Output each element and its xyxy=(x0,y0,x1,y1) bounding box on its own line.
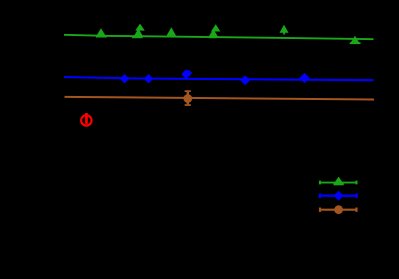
legend green error cap under triangle xyxy=(334,183,344,185)
legend green left cap xyxy=(319,181,321,185)
brown error bar vertical xyxy=(187,91,189,106)
green triangle marker T1 xyxy=(96,28,105,36)
legend green right cap xyxy=(356,181,358,185)
legend blue left cap xyxy=(319,193,321,198)
brown error bar top cap xyxy=(185,90,191,92)
blue diamond marker D3 xyxy=(181,69,191,79)
blue diamond marker D1 xyxy=(120,74,129,83)
blue diamond marker D5 xyxy=(299,73,309,83)
green triangle marker T4a xyxy=(211,24,220,31)
blue diamond marker D2 xyxy=(144,74,153,83)
green error cap under T6 xyxy=(350,42,361,44)
green triangle marker T5 xyxy=(280,25,289,33)
green error cap under T1 xyxy=(96,36,107,38)
brown circle marker xyxy=(183,94,192,103)
red open circle marker xyxy=(81,115,91,125)
green triangle marker T6 xyxy=(350,36,360,44)
red error bar vertical xyxy=(85,113,88,124)
legend blue right cap xyxy=(355,193,357,198)
green triangle marker T2a xyxy=(135,24,145,31)
legend blue diamond xyxy=(334,191,344,201)
legend brown right cap xyxy=(355,208,357,212)
legend green triangle xyxy=(334,177,343,184)
legend entry 1: green line xyxy=(319,182,357,184)
legend brown left cap xyxy=(319,208,321,212)
blue data line xyxy=(64,77,374,80)
blue diamond marker D4 xyxy=(240,75,250,85)
legend entry 2: blue line xyxy=(319,194,357,196)
legend entry 3: brown line xyxy=(319,209,357,211)
blue diamond marker D3b bump xyxy=(186,70,193,77)
green error stem under T5 xyxy=(283,29,285,35)
green error cap under T2 xyxy=(132,36,143,38)
green error cap under T4 xyxy=(209,36,217,38)
green triangle marker T3 xyxy=(167,27,177,36)
green triangle marker T4b xyxy=(209,29,218,37)
brown error bar bottom cap xyxy=(185,104,191,106)
brown data line xyxy=(65,97,375,100)
green triangle marker T2b xyxy=(134,29,144,37)
green trend line xyxy=(64,35,374,39)
legend brown circle xyxy=(334,205,343,214)
